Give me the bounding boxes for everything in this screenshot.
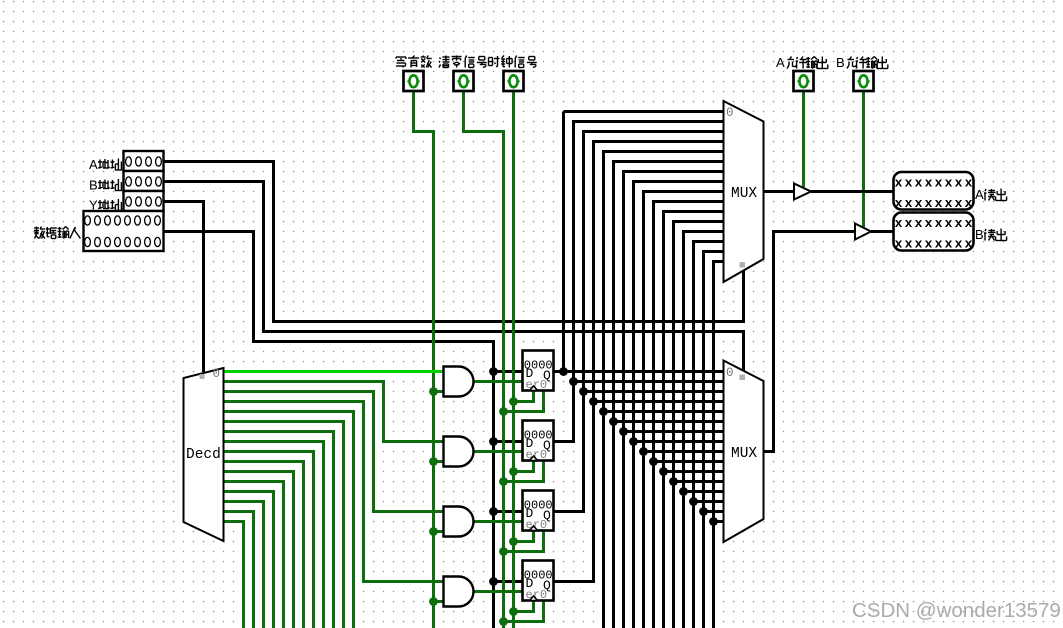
- wire MUX2 output to buffer B: [764, 232, 856, 452]
- svg-text:MUX: MUX: [731, 446, 757, 462]
- svg-text:x: x: [935, 176, 943, 191]
- svg-text:x: x: [945, 196, 953, 211]
- svg-text:B: B: [836, 55, 845, 70]
- wire clock signal: [512, 91, 515, 628]
- svg-text:x: x: [915, 196, 923, 211]
- wire B-address bus to MUX2 select: [164, 182, 744, 371]
- svg-text:x: x: [925, 176, 933, 191]
- wire write-enable signal: [414, 91, 434, 628]
- label A-out-enable: [776, 55, 828, 70]
- wire decoder output 11 (to off-screen register): [224, 482, 284, 628]
- svg-text:x: x: [905, 237, 913, 252]
- svg-text:x: x: [915, 237, 923, 252]
- input pin clock-signal: [504, 71, 524, 91]
- svg-text:0: 0: [726, 106, 734, 120]
- label B-address: [89, 178, 122, 193]
- input pin write-enable: [404, 71, 424, 91]
- svg-text:x: x: [895, 196, 903, 211]
- input pin A-out-enable: [794, 71, 814, 91]
- svg-text:x: x: [965, 237, 973, 252]
- wire clock stubs to register clock pins: [514, 391, 534, 612]
- svg-text:x: x: [925, 196, 933, 211]
- svg-text:x: x: [905, 216, 913, 231]
- wire register 1 Q riser to MUX inputs: [554, 122, 724, 442]
- svg-text:x: x: [915, 176, 923, 191]
- wire decoder output 6 (to off-screen register): [224, 432, 334, 628]
- svg-text:x: x: [945, 216, 953, 231]
- wire clear signal: [464, 91, 504, 628]
- register 2: [523, 421, 554, 463]
- wire buffer B output to probe B: [871, 230, 895, 233]
- svg-text:x: x: [925, 237, 933, 252]
- wire decoder output 15 (to off-screen register): [224, 522, 244, 628]
- multiplexer MUX2: [724, 361, 764, 543]
- register 4: [523, 561, 554, 603]
- label Y-address: [89, 198, 122, 213]
- svg-text:x: x: [905, 176, 913, 191]
- junction dots data bus: [489, 367, 498, 586]
- multiplexer MUX1: [724, 101, 764, 282]
- watermark CSDN: [852, 599, 1061, 622]
- input pin clear-signal: [454, 71, 474, 91]
- wire register 3 Q riser to MUX inputs: [554, 142, 724, 582]
- wire register 4 Q riser to MUX inputs: [604, 152, 724, 628]
- svg-text:x: x: [965, 176, 973, 191]
- label A readout: [975, 187, 1007, 202]
- wire decoder output 0 (active, bright green): [224, 370, 445, 373]
- wire register 10 Q riser to MUX inputs: [664, 212, 724, 628]
- wire decoder output 1 to AND gate 2: [224, 382, 445, 442]
- svg-text:A: A: [975, 187, 984, 202]
- svg-text:x: x: [955, 176, 963, 191]
- wire AND gate outputs to register enable pins: [474, 382, 523, 592]
- svg-text:x: x: [895, 237, 903, 252]
- wire Y-address to decoder select: [164, 202, 204, 373]
- svg-text:x: x: [965, 216, 973, 231]
- wire register 9 Q riser to MUX inputs: [654, 202, 724, 628]
- junction dots write-enable: [429, 387, 438, 606]
- svg-text:A: A: [89, 157, 98, 172]
- svg-text:x: x: [935, 196, 943, 211]
- probe B readout: [894, 213, 974, 252]
- wire decoder output 8 (to off-screen register): [224, 452, 314, 628]
- wire MUX1 output to buffer A: [764, 190, 795, 193]
- wire register 13 Q riser to MUX inputs: [694, 242, 724, 628]
- wire decoder output 3 to AND gate 4: [224, 402, 445, 582]
- svg-text:B: B: [89, 178, 98, 193]
- AND gate 4: [444, 577, 474, 607]
- wire decoder output 12 (to off-screen register): [224, 492, 274, 628]
- junction dots riser to MUX2 inputs: [559, 367, 718, 526]
- wire register 6 Q riser to MUX inputs: [624, 172, 724, 628]
- svg-text:0: 0: [213, 367, 221, 381]
- label clear-signal: [439, 56, 487, 68]
- wire clear stubs to register reset pins: [504, 391, 544, 622]
- junction dots clock signal: [509, 397, 518, 616]
- wire data-input bus: [164, 232, 494, 628]
- AND gate 3: [444, 507, 474, 537]
- decoder Decd: [184, 367, 224, 541]
- AND gate 2: [444, 437, 474, 467]
- svg-text:x: x: [945, 237, 953, 252]
- controlled buffer A: [794, 184, 811, 200]
- input pin data-input: [84, 211, 164, 251]
- wire register 11 Q riser to MUX inputs: [674, 222, 724, 628]
- wire register 0 Q riser to MUX inputs: [554, 112, 724, 372]
- svg-text:x: x: [955, 216, 963, 231]
- probe A readout: [894, 172, 974, 211]
- svg-text:x: x: [895, 216, 903, 231]
- svg-text:A: A: [776, 55, 785, 70]
- wire register 12 Q riser to MUX inputs: [684, 232, 724, 628]
- svg-text:B: B: [975, 227, 984, 242]
- svg-text:CSDN @wonder13579: CSDN @wonder13579: [852, 599, 1061, 622]
- AND gate 1: [444, 367, 474, 397]
- label data-input: [34, 227, 80, 239]
- wire buffer A output to probe A: [811, 190, 895, 193]
- svg-text:x: x: [955, 237, 963, 252]
- wire register 8 Q riser to MUX inputs: [644, 192, 724, 628]
- wire A-output-enable: [802, 91, 805, 187]
- wire decoder output 14 (to off-screen register): [224, 512, 254, 628]
- input pin B-out-enable: [854, 71, 874, 91]
- svg-text:x: x: [945, 176, 953, 191]
- svg-text:0: 0: [726, 366, 734, 380]
- wire decoder output 4 (to off-screen register): [224, 412, 354, 628]
- wire write-enable stubs to AND gates: [434, 392, 445, 602]
- svg-text:MUX: MUX: [731, 186, 757, 202]
- label clock-signal: [489, 56, 537, 68]
- input pin A-address: [124, 151, 164, 171]
- register 1: [523, 351, 554, 393]
- svg-text:x: x: [905, 196, 913, 211]
- svg-text:x: x: [915, 216, 923, 231]
- wire decoder output 13 (to off-screen register): [224, 502, 264, 628]
- wire register 7 Q riser to MUX inputs: [634, 182, 724, 628]
- label A-address: [89, 157, 122, 172]
- svg-text:x: x: [935, 216, 943, 231]
- wire data bus stubs to register D inputs: [494, 372, 523, 582]
- wire register 2 Q riser to MUX inputs: [554, 132, 724, 512]
- label B-out-enable: [836, 55, 888, 70]
- junction dots clear signal: [499, 407, 508, 626]
- controlled buffer B: [855, 224, 871, 240]
- wire decoder output 5 (to off-screen register): [224, 422, 344, 628]
- label B readout: [975, 227, 1007, 242]
- wire B-output-enable: [862, 91, 865, 227]
- svg-text:x: x: [925, 216, 933, 231]
- svg-text:x: x: [895, 176, 903, 191]
- wire register 15 Q riser to MUX inputs: [714, 262, 724, 628]
- register 3: [523, 491, 554, 533]
- svg-text:x: x: [955, 196, 963, 211]
- wire decoder output 2 to AND gate 3: [224, 392, 445, 512]
- svg-text:x: x: [935, 237, 943, 252]
- wire decoder output 10 (to off-screen register): [224, 472, 294, 628]
- wire decoder output 9 (to off-screen register): [224, 462, 304, 628]
- wire register 5 Q riser to MUX inputs: [614, 162, 724, 628]
- wire decoder output 7 (to off-screen register): [224, 442, 324, 628]
- wire A-address bus to MUX1 select: [164, 162, 744, 322]
- input pin Y-address: [124, 191, 164, 211]
- wire register 14 Q riser to MUX inputs: [704, 252, 724, 628]
- input pin B-address: [124, 171, 164, 191]
- svg-text:Decd: Decd: [186, 447, 221, 463]
- svg-text:x: x: [965, 196, 973, 211]
- label write-enable: [396, 56, 432, 68]
